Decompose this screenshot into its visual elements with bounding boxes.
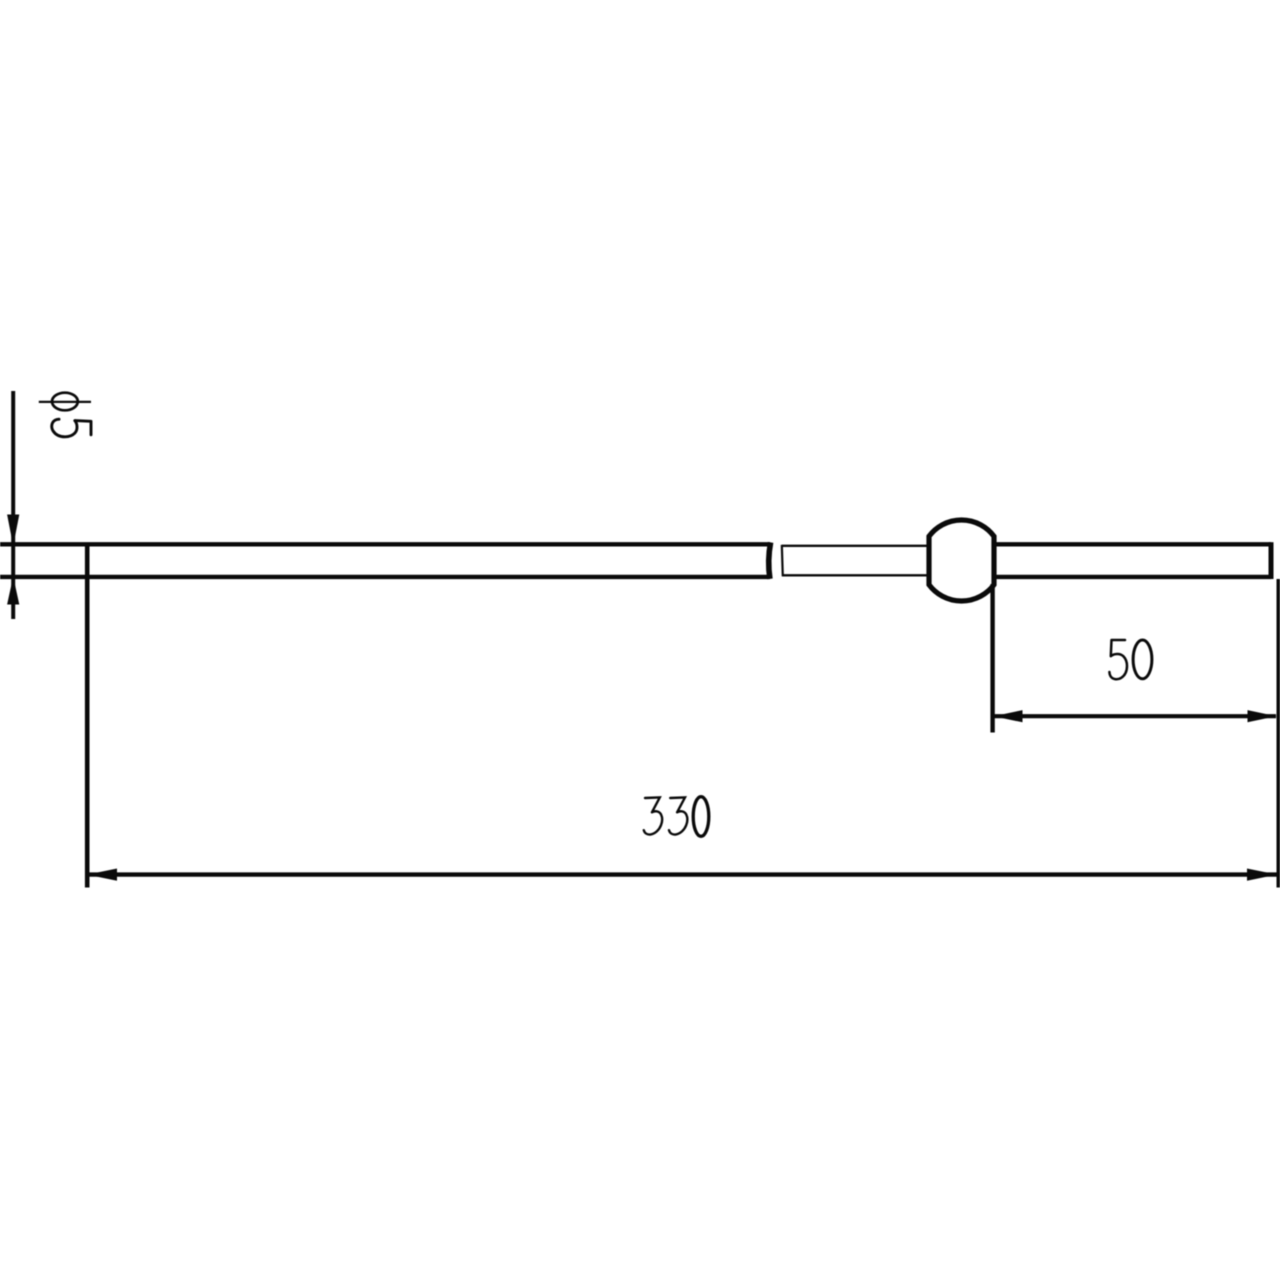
330 dimension line (88, 872, 1277, 876)
50 dimension left arrowhead (994, 710, 1023, 722)
330 label: digit 3 (second) (669, 797, 687, 834)
rod right segment top line (994, 542, 1271, 546)
thin wire segment bottom line (782, 574, 931, 576)
330 dimension left arrowhead (87, 869, 117, 881)
330 left extension line (85, 543, 90, 888)
rod left segment top line (0, 542, 770, 546)
50 label: digit 0 (1133, 640, 1152, 679)
right extension line (for 50 and 330) (1276, 579, 1280, 888)
50 label: digit 5 (1109, 640, 1127, 679)
rod left segment break end cap (769, 542, 771, 579)
phi symbol stem (horizontal line) (39, 401, 91, 403)
50 dimension right arrowhead (1248, 710, 1277, 722)
rod right segment bottom line (994, 575, 1271, 579)
phi5 lower arrowhead (7, 577, 19, 605)
phi5 dimension line (vertical) (11, 391, 15, 619)
50 dimension line (994, 714, 1276, 718)
330 label: digit 0 (693, 797, 709, 837)
50 left extension line (below ball) (990, 584, 994, 733)
thin wire segment left cap (782, 545, 783, 577)
thin wire segment top line (782, 545, 931, 547)
rod left segment bottom line (0, 575, 770, 579)
ball (truncated sphere) (929, 520, 994, 601)
digit 5 of phi5 label (rotated 90deg) (52, 419, 91, 437)
rod right end cap (1269, 542, 1274, 579)
phi symbol (rotated): ellipse (52, 393, 78, 411)
phi5 upper arrowhead (7, 515, 19, 547)
330 dimension right arrowhead (1247, 869, 1277, 881)
330 label: digit 3 (first) (644, 797, 662, 834)
